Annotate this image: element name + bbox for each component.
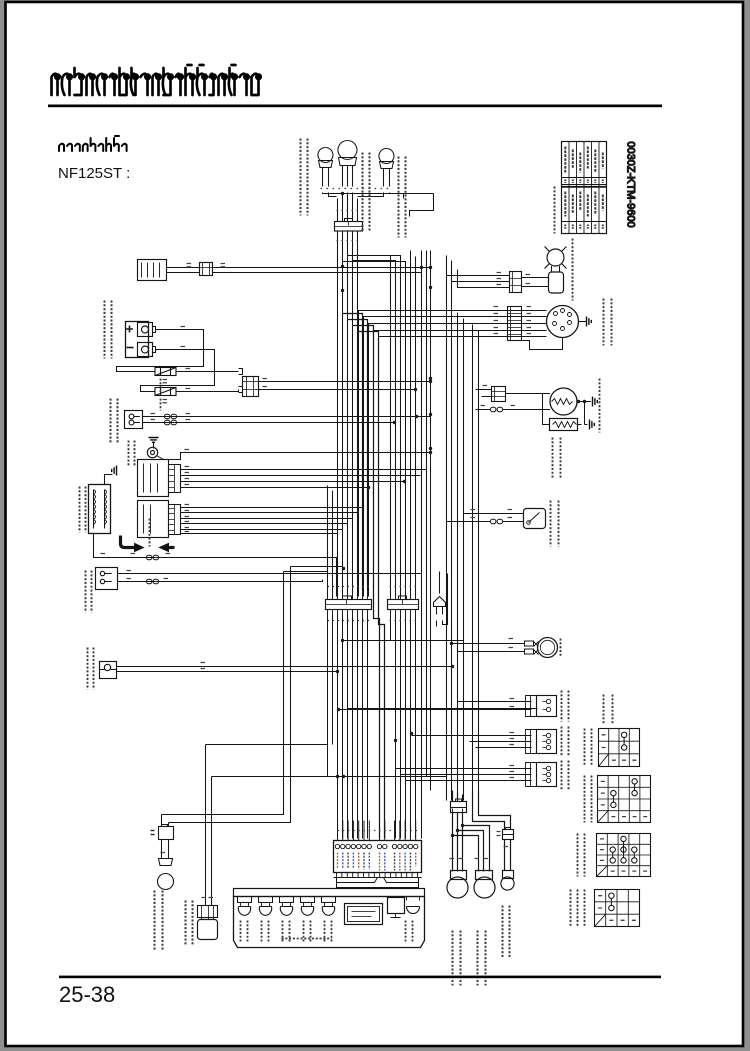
bottom rule <box>59 976 661 979</box>
regulator rectifier box <box>138 260 167 281</box>
front right turn signal lamp (12V 10W) <box>379 149 394 164</box>
tail brake light (12V 18/5W) <box>198 920 218 940</box>
label switch pod 2 <box>562 727 569 757</box>
front left turn signal lamp (12V 10W) <box>318 148 333 163</box>
title rule <box>48 105 662 108</box>
battery 12V 2.5Ah <box>126 322 149 358</box>
pod3 connector comb <box>526 763 537 787</box>
charging switch wires <box>143 417 431 423</box>
headlight wires and junctions <box>453 813 463 872</box>
label legend table <box>554 187 556 234</box>
wire color legend table <box>562 142 607 234</box>
bar A pins <box>328 591 368 601</box>
trunk wires below bars <box>328 616 368 839</box>
neutral switch wires <box>447 514 524 522</box>
labels table 2 <box>585 776 592 823</box>
labels indicator lamps <box>241 921 248 942</box>
junction dots top bus <box>341 265 344 268</box>
battery negative terminal <box>138 343 153 357</box>
side stand switch wires <box>118 574 422 582</box>
spark plug <box>547 249 564 266</box>
winker relay box (left) <box>138 460 169 497</box>
regulator connector <box>167 268 200 273</box>
bus jog wires to secondary columns <box>343 314 385 839</box>
label battery 12V 2.5Ah <box>105 301 112 359</box>
bar B pins <box>391 597 416 601</box>
page title (Thai) <box>52 65 261 95</box>
position lamp feed wires <box>473 791 511 830</box>
magneto ground <box>105 475 113 485</box>
meter harness connector block <box>334 841 422 873</box>
handlebar switch pod 2 (dimmer switch) <box>537 730 557 754</box>
main harness connector bar B <box>388 600 419 610</box>
headlight bulb right <box>476 871 493 880</box>
label wire codes at T1 <box>337 210 361 212</box>
CDI ground symbol <box>579 321 587 323</box>
label headlight bulb 1 <box>453 931 461 986</box>
svg-text:NF125ST :: NF125ST : <box>58 165 130 182</box>
label wire codes at meter connector <box>338 830 421 832</box>
label front brake switch <box>88 648 94 690</box>
labels table 1 <box>585 729 592 767</box>
meter connector pin comb <box>337 873 418 878</box>
key wire to bus <box>171 453 431 460</box>
trunk junction dots mid <box>429 377 432 380</box>
connector T1 headlamp harness <box>335 222 363 232</box>
labels table 4 <box>571 890 585 927</box>
indicator lamp 5 <box>322 897 336 903</box>
pod3 wires <box>396 769 526 781</box>
label speedometer panel <box>282 938 332 940</box>
position lamp connector <box>503 830 514 840</box>
wire harness trunk top routing <box>338 248 358 597</box>
label position lamp <box>503 906 510 959</box>
CDI box wires to bus <box>181 508 363 534</box>
headlight bulb left (12V 18/18W) <box>451 871 467 880</box>
label side stand switch <box>86 571 92 613</box>
indicator lamp 2 <box>259 897 273 903</box>
handlebar switch pod 3 (turn signal switch) <box>537 763 557 787</box>
left drop wires to rear signal <box>181 567 291 823</box>
front brake switch wires <box>117 667 453 672</box>
bulb lead tick labels <box>450 858 455 860</box>
charging switch box <box>125 411 143 429</box>
horn switch continuity table <box>599 729 640 767</box>
label wire codes below bar A <box>328 620 370 622</box>
label front left turn signal <box>301 139 308 216</box>
CDI round connector <box>547 306 579 338</box>
MAIN_TITLE <box>52 65 261 95</box>
SUBTITLES <box>58 136 130 182</box>
rear turn signal connector <box>159 827 174 840</box>
label rear turn signal lamp <box>155 891 163 951</box>
main harness connector bar A <box>326 600 372 610</box>
label horn <box>560 639 562 658</box>
alternator generator coil <box>550 388 577 415</box>
label neutral switch <box>551 501 559 547</box>
CDI box connector comb <box>169 505 181 535</box>
label switch pod 3 <box>562 761 569 791</box>
label panel right lamp <box>406 921 413 942</box>
alternator connector 2x2 <box>492 387 506 402</box>
alternator output and ground <box>577 401 591 403</box>
fuse 15A <box>155 388 176 396</box>
headlight connector 4P <box>451 802 467 813</box>
magneto output wire <box>94 534 337 597</box>
label alternator <box>599 379 601 433</box>
label headlight pilot lamp <box>363 153 370 231</box>
panel right indicator lamp <box>407 897 420 901</box>
fuse labels <box>163 380 168 383</box>
winker relay connector comb <box>169 465 181 493</box>
legend table rotated text (greeked) <box>565 147 603 217</box>
wire drop to headlamp connector <box>338 194 434 217</box>
CDI connector block <box>508 307 522 341</box>
label CDI unit <box>604 299 612 346</box>
label horn single <box>129 441 135 466</box>
lamp lead wires to bus <box>323 193 434 199</box>
CDI control box (left) <box>138 501 169 538</box>
neutral switch <box>524 509 546 529</box>
battery wires <box>117 330 215 392</box>
winker relay wires to bus <box>181 470 427 488</box>
pod2 connector comb <box>526 730 537 754</box>
speedometer panel top plate <box>234 889 425 897</box>
side stand switch box <box>96 568 118 590</box>
horn terminals <box>525 641 534 646</box>
svg-text:25-38: 25-38 <box>59 982 115 1007</box>
turn signal flasher relay <box>434 597 446 607</box>
labels table 3 <box>578 834 585 877</box>
fuse output wires <box>176 372 239 392</box>
meter resistor block <box>388 898 405 914</box>
speedometer panel body <box>234 897 425 948</box>
fused supply wires to bus <box>259 382 431 390</box>
ignition coil body <box>552 266 560 272</box>
front brake light switch <box>100 662 117 679</box>
ignition coil connector <box>510 272 522 293</box>
indicator lamp 3 <box>280 897 294 903</box>
subtitle Thai "electrical circuit" <box>59 136 127 151</box>
handlebar switch pod 1 (horn switch) <box>537 696 557 717</box>
ignition coil wires to trunk <box>447 268 510 288</box>
indicator lamp 4 <box>301 897 315 903</box>
regulator wires to bus <box>213 268 431 273</box>
lighting coil box <box>550 419 578 431</box>
label headlight bulb 2 <box>478 931 486 986</box>
odometer display window <box>345 904 383 925</box>
mid-page branch wires <box>343 640 464 642</box>
pod2 wires <box>412 736 526 748</box>
CDI case ground wire <box>522 338 563 350</box>
label lighting coil <box>553 438 561 479</box>
fuse 10A <box>155 368 176 376</box>
label flywheel <box>149 519 151 547</box>
label wire codes above bar A <box>328 586 370 588</box>
label magneto unit <box>80 487 86 533</box>
trunk right columns <box>411 251 416 597</box>
battery positive terminal <box>138 323 153 337</box>
inline diode on charge line <box>222 368 224 370</box>
label fuse ratings <box>160 379 162 393</box>
label charging coil switch <box>111 399 118 443</box>
horn <box>538 638 558 658</box>
flywheel arrow marks <box>121 536 135 548</box>
alternator inline connector <box>491 407 503 411</box>
pod1 connector comb <box>526 696 537 717</box>
front brake switch continuity table <box>595 890 640 927</box>
ground near ignition key <box>153 442 155 449</box>
rear turn signal bulb (12V 10W) <box>162 843 169 859</box>
indicator lamp 1 <box>238 897 252 903</box>
pod1 wires <box>458 702 526 710</box>
main fuse connector <box>239 369 243 393</box>
CDI wires to trunk <box>522 311 547 337</box>
position lamp bulb (12V 10W) <box>505 840 511 871</box>
turn signal switch continuity table <box>597 834 651 877</box>
lighting coil ground <box>590 420 595 430</box>
label switch pod 1 <box>562 691 569 722</box>
lighting coil left wire <box>506 394 550 425</box>
headlight pilot lamp (12V 18.5W) <box>338 141 357 160</box>
dimmer switch continuity table <box>598 776 651 823</box>
tail light connector <box>198 906 218 918</box>
LABELS (greeked) <box>80 139 613 986</box>
label spark plug and coil <box>572 239 574 301</box>
label tail light <box>186 901 193 946</box>
flasher relay <box>432 606 434 608</box>
magneto exciter coil unit <box>89 485 111 534</box>
ignition key symbol <box>147 447 157 457</box>
svg-text:0030Z-KTM-9600: 0030Z-KTM-9600 <box>625 141 637 227</box>
labels above table 1 <box>603 695 605 725</box>
label front right turn signal <box>399 157 406 238</box>
